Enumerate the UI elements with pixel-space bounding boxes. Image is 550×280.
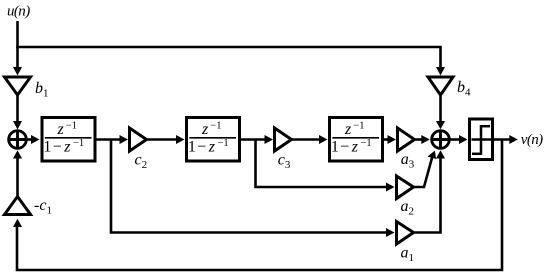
wire H2 to c3 with tap node	[240, 138, 268, 141]
gain c2 (triangle pointing right)	[130, 128, 147, 151]
summing junction S2	[432, 131, 450, 149]
quantizer block Q	[470, 119, 493, 160]
svg-text:−1: −1	[361, 138, 372, 149]
wire c3 to H3	[292, 138, 322, 141]
summing junction S1	[9, 131, 27, 149]
svg-text:c3: c3	[278, 151, 291, 171]
gain a3 (triangle pointing right)	[398, 128, 415, 151]
svg-text:z: z	[56, 121, 64, 138]
wire feedback from output down, along bottom, and up to -c1	[17, 140, 502, 271]
svg-text:a3: a3	[401, 151, 415, 171]
gain c3 (triangle pointing right)	[275, 128, 292, 151]
integrator block H2 z^-1/(1-z^-1)	[187, 118, 240, 162]
svg-text:−1: −1	[73, 138, 84, 149]
svg-text:b4: b4	[457, 79, 471, 99]
svg-text:−1: −1	[353, 121, 364, 132]
wire a2 to S2 (diagonal)	[414, 156, 433, 187]
svg-text:-c1: -c1	[34, 197, 52, 217]
wire input vertical from u(n) to b1	[16, 21, 19, 70]
wire S1 to integrator H1	[27, 138, 33, 141]
wire -c1 to S1 bottom	[16, 157, 19, 197]
wire quantizer to output	[493, 138, 513, 141]
wire branch to b4: horizontal at y=47 and vertical down	[16, 47, 440, 70]
svg-text:a1: a1	[401, 244, 415, 264]
gain -c1 (triangle pointing up)	[5, 197, 31, 215]
wire c2 to H2	[147, 138, 179, 141]
svg-text:−1: −1	[66, 121, 77, 132]
wire tap down to a1	[111, 140, 389, 233]
wire H3 to a3	[383, 138, 390, 141]
gain b4 (triangle pointing down)	[428, 77, 453, 95]
svg-text:c2: c2	[135, 151, 148, 171]
svg-text:b1: b1	[35, 80, 49, 100]
wire S2 to quantizer	[450, 138, 462, 141]
svg-text:z: z	[344, 121, 352, 138]
wire H1 to c2 with tap node	[96, 138, 123, 141]
svg-text:1−z: 1−z	[331, 139, 359, 156]
gain a2 (triangle pointing right)	[397, 176, 414, 199]
wire tap down to a2	[256, 140, 389, 188]
gain a1 (triangle pointing right)	[397, 222, 414, 245]
svg-text:v(n): v(n)	[521, 132, 543, 148]
integrator block H3 z^-1/(1-z^-1)	[330, 118, 383, 162]
gain b1 (triangle pointing down)	[5, 77, 31, 95]
svg-text:1−z: 1−z	[43, 139, 71, 156]
svg-text:1−z: 1−z	[188, 139, 216, 156]
wire b1 to summing junction S1	[16, 95, 19, 124]
svg-text:a2: a2	[401, 198, 415, 218]
wire a3 to summing junction S2	[415, 138, 424, 141]
wire b4 to S2 top	[439, 95, 442, 124]
svg-text:−1: −1	[210, 121, 221, 132]
svg-text:−1: −1	[218, 138, 229, 149]
integrator block H1 z^-1/(1-z^-1)	[42, 118, 95, 162]
svg-text:z: z	[201, 121, 209, 138]
svg-text:u(n): u(n)	[7, 3, 30, 19]
wire a1 right and up to S2 bottom	[414, 156, 441, 233]
